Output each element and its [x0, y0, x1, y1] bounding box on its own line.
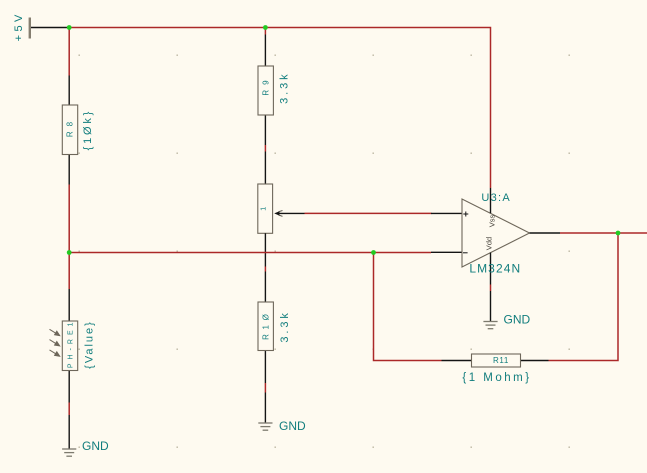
photoresistor PH_RE1 — [50, 289, 96, 403]
wire feedback left — [374, 253, 442, 361]
potentiometer RV1 — [258, 152, 305, 267]
wire op-amp Vss to gnd — [490, 285, 492, 292]
wire junction to photoresistor — [68, 253, 70, 290]
wire R8 bottom — [68, 185, 70, 253]
resistor R8 — [62, 76, 94, 185]
wiper arrow — [274, 211, 279, 215]
wire feedback right — [549, 233, 619, 361]
power symbol +5V — [13, 11, 31, 41]
junction +5V/R8 — [67, 25, 72, 30]
svg-text:R9: R9 — [262, 75, 271, 95]
svg-text:3.3k: 3.3k — [278, 71, 290, 103]
wire R9 to pot — [264, 145, 266, 152]
wire R9 top — [264, 28, 266, 35]
ground (R10) — [258, 393, 306, 434]
pin - — [431, 251, 462, 253]
pin + — [431, 212, 462, 214]
svg-text:R8: R8 — [66, 117, 75, 137]
svg-text:PH-RE1: PH-RE1 — [67, 318, 74, 368]
wire pot to R10 — [264, 267, 266, 272]
svg-text:{1Øk}: {1Øk} — [82, 109, 94, 151]
resistor R9 — [258, 35, 290, 146]
wire output — [560, 232, 647, 234]
svg-text:GND: GND — [504, 313, 531, 327]
svg-text:LM324N: LM324N — [469, 262, 521, 276]
junction R8/PH_RE1/inverting — [67, 250, 72, 255]
svg-text:GND: GND — [82, 439, 109, 453]
resistor R11 — [442, 354, 549, 384]
junction inverting/feedback — [371, 250, 376, 255]
pin Vdd (top) — [490, 188, 492, 213]
wire R10 to gnd — [264, 383, 266, 393]
svg-text:R11: R11 — [493, 356, 509, 365]
ground (photoresistor) — [62, 415, 109, 456]
svg-text:Vss: Vss — [487, 215, 496, 228]
pin out — [530, 232, 561, 234]
wire photoresistor to gnd — [68, 403, 70, 416]
svg-text:{1 Mohm}: {1 Mohm} — [462, 372, 531, 384]
svg-text:+5V: +5V — [13, 11, 25, 41]
svg-text:R1Ø: R1Ø — [262, 310, 271, 340]
op-amp U3 — [431, 188, 560, 285]
svg-text:3.3k: 3.3k — [279, 310, 291, 342]
light arrows — [50, 329, 60, 356]
wire pot wiper to op-amp + — [305, 212, 432, 214]
svg-text:Vdd: Vdd — [484, 237, 493, 250]
junction +5V/R9 — [263, 25, 268, 30]
wire +5V rail — [67, 28, 491, 189]
grid dots — [79, 55, 570, 448]
svg-text:1: 1 — [258, 207, 267, 211]
resistor R10 — [258, 272, 291, 384]
ground (op-amp) — [483, 291, 530, 329]
power pin — [31, 27, 67, 29]
svg-text:GND: GND — [279, 419, 306, 433]
junction output/feedback — [616, 231, 621, 236]
svg-text:{Value}: {Value} — [83, 320, 95, 369]
wire R8 top — [68, 28, 70, 76]
svg-text:U3:A: U3:A — [481, 192, 511, 204]
pin Vss (bottom) — [490, 253, 492, 285]
wire inverting net — [69, 252, 373, 254]
